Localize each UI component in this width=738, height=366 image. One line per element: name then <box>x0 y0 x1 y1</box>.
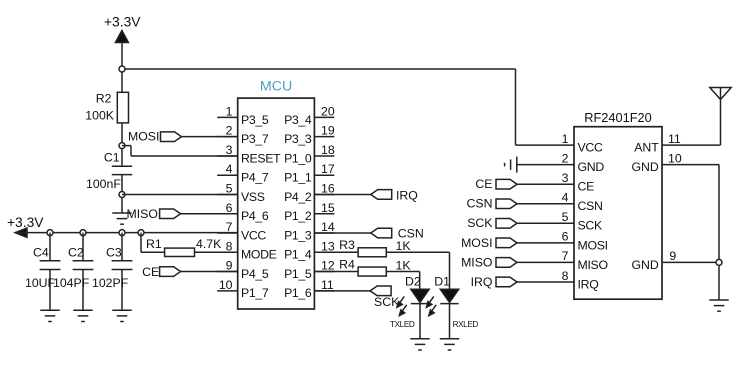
svg-text:MISO: MISO <box>127 207 158 221</box>
svg-text:18: 18 <box>321 143 335 157</box>
svg-text:P4_5: P4_5 <box>241 267 269 281</box>
svg-text:D1: D1 <box>434 274 450 288</box>
svg-text:12: 12 <box>321 259 335 273</box>
svg-text:R4: R4 <box>339 258 355 272</box>
svg-text:RF2401F20: RF2401F20 <box>584 110 652 125</box>
svg-text:P3_3: P3_3 <box>284 132 312 146</box>
svg-text:R3: R3 <box>339 238 355 252</box>
svg-text:SCK: SCK <box>578 219 603 233</box>
svg-text:1K: 1K <box>396 259 412 273</box>
svg-text:SCK: SCK <box>374 295 400 309</box>
svg-text:CE: CE <box>142 265 159 279</box>
svg-text:6: 6 <box>562 230 569 244</box>
svg-text:P1_6: P1_6 <box>284 286 312 300</box>
svg-text:8: 8 <box>226 239 233 253</box>
svg-text:8: 8 <box>562 269 569 283</box>
svg-text:20: 20 <box>321 104 335 118</box>
svg-text:P1_7: P1_7 <box>241 286 269 300</box>
svg-text:CSN: CSN <box>467 197 493 211</box>
svg-text:P1_4: P1_4 <box>284 248 312 262</box>
svg-text:R2: R2 <box>96 92 112 106</box>
svg-text:1: 1 <box>226 104 233 118</box>
svg-text:SCK: SCK <box>467 216 493 230</box>
svg-text:11: 11 <box>668 132 681 146</box>
svg-text:4.7K: 4.7K <box>196 237 222 251</box>
svg-text:4: 4 <box>562 191 569 205</box>
svg-text:RXLED: RXLED <box>453 320 479 329</box>
svg-text:C1: C1 <box>104 151 120 165</box>
svg-text:7: 7 <box>226 220 233 234</box>
svg-text:5: 5 <box>226 181 233 195</box>
svg-text:MISO: MISO <box>461 255 492 269</box>
svg-text:MOSI: MOSI <box>461 236 492 250</box>
svg-text:1K: 1K <box>396 239 412 253</box>
svg-text:17: 17 <box>321 162 335 176</box>
svg-text:GND: GND <box>631 258 658 272</box>
svg-text:MCU: MCU <box>260 79 292 95</box>
svg-text:TXLED: TXLED <box>390 320 415 329</box>
svg-text:7: 7 <box>562 249 569 263</box>
svg-text:IRQ: IRQ <box>578 277 599 291</box>
svg-text:P1_1: P1_1 <box>284 171 312 185</box>
svg-text:D2: D2 <box>405 274 421 288</box>
svg-text:IRQ: IRQ <box>396 188 418 202</box>
svg-text:15: 15 <box>321 201 335 215</box>
svg-text:10: 10 <box>668 151 682 165</box>
svg-text:ANT: ANT <box>634 141 659 155</box>
svg-text:19: 19 <box>321 124 335 138</box>
svg-text:GND: GND <box>578 160 605 174</box>
svg-text:P1_5: P1_5 <box>284 267 312 281</box>
svg-text:P4_2: P4_2 <box>284 190 312 204</box>
svg-text:P1_0: P1_0 <box>284 151 312 165</box>
svg-text:C3: C3 <box>106 245 122 259</box>
svg-text:6: 6 <box>226 201 233 215</box>
svg-text:RESET: RESET <box>241 151 281 165</box>
svg-text:P4_6: P4_6 <box>241 209 269 223</box>
svg-text:VSS: VSS <box>241 190 265 204</box>
svg-text:CSN: CSN <box>578 199 603 213</box>
svg-text:CE: CE <box>578 180 595 194</box>
svg-text:100K: 100K <box>85 109 115 123</box>
svg-text:P4_7: P4_7 <box>241 171 269 185</box>
svg-text:P3_4: P3_4 <box>284 113 312 127</box>
svg-text:C4: C4 <box>33 245 49 259</box>
svg-text:MOSI: MOSI <box>578 238 608 252</box>
svg-text:MISO: MISO <box>578 258 608 272</box>
svg-text:5: 5 <box>562 210 569 224</box>
svg-text:9: 9 <box>669 249 676 263</box>
svg-text:16: 16 <box>321 181 335 195</box>
svg-text:+3.3V: +3.3V <box>104 15 141 30</box>
svg-text:VCC: VCC <box>241 228 266 242</box>
svg-text:14: 14 <box>321 220 335 234</box>
svg-text:MOSI: MOSI <box>128 130 159 144</box>
svg-text:P1_2: P1_2 <box>284 209 312 223</box>
svg-text:P3_7: P3_7 <box>241 132 269 146</box>
svg-text:2: 2 <box>226 124 233 138</box>
svg-text:P3_5: P3_5 <box>241 113 269 127</box>
svg-text:P1_3: P1_3 <box>284 228 312 242</box>
svg-text:MODE: MODE <box>241 248 277 262</box>
svg-text:102PF: 102PF <box>92 276 129 290</box>
svg-text:4: 4 <box>226 162 233 176</box>
svg-text:13: 13 <box>321 239 335 253</box>
svg-text:R1: R1 <box>146 237 162 251</box>
svg-text:10: 10 <box>219 278 233 292</box>
svg-text:VCC: VCC <box>578 141 603 155</box>
svg-text:GND: GND <box>631 160 658 174</box>
svg-text:3: 3 <box>562 171 569 185</box>
svg-text:IRQ: IRQ <box>471 275 493 289</box>
svg-text:CE: CE <box>475 177 492 191</box>
svg-text:1: 1 <box>562 132 569 146</box>
svg-text:11: 11 <box>321 278 334 292</box>
svg-text:2: 2 <box>562 151 569 165</box>
svg-text:104PF: 104PF <box>53 276 90 290</box>
svg-text:100nF: 100nF <box>86 177 121 191</box>
svg-text:C2: C2 <box>68 245 84 259</box>
svg-text:9: 9 <box>226 259 233 273</box>
svg-text:3: 3 <box>226 143 233 157</box>
svg-text:10UF: 10UF <box>25 276 56 290</box>
